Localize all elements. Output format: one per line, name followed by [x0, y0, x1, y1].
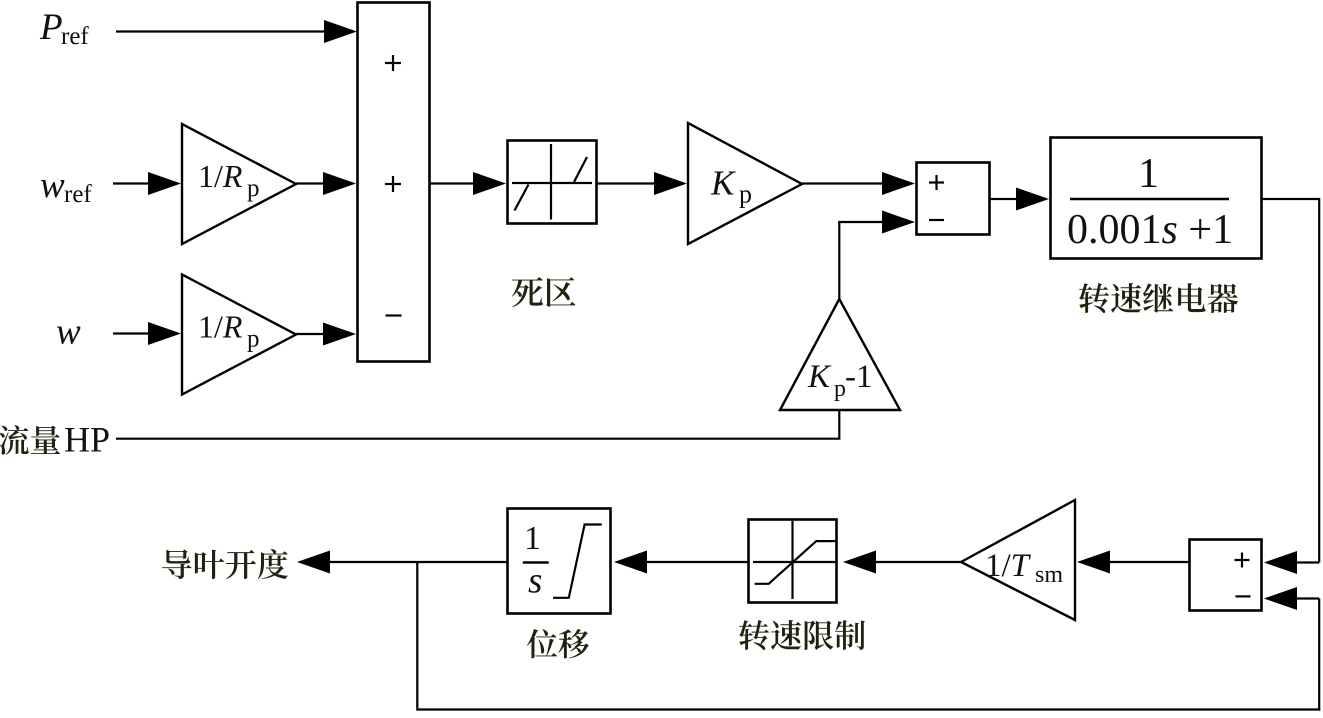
svg-text:1/R: 1/R — [198, 309, 243, 345]
svg-text:P: P — [39, 7, 63, 48]
svg-text:ref: ref — [64, 181, 92, 208]
svg-text:p: p — [247, 326, 260, 353]
svg-text:sm: sm — [1035, 562, 1063, 588]
svg-text:1: 1 — [1138, 151, 1159, 197]
svg-text:s: s — [528, 561, 542, 602]
svg-text:0.001s +1: 0.001s +1 — [1067, 207, 1233, 253]
svg-text:-1: -1 — [845, 359, 873, 395]
svg-text:w: w — [40, 165, 65, 206]
svg-text:ref: ref — [61, 23, 89, 50]
svg-text:1: 1 — [524, 520, 541, 557]
svg-text:p: p — [247, 175, 260, 202]
svg-text:p: p — [739, 180, 752, 209]
svg-text:1/R: 1/R — [198, 158, 243, 194]
svg-text:1/T: 1/T — [985, 548, 1032, 584]
svg-text:K: K — [807, 359, 832, 395]
svg-text:w: w — [56, 312, 81, 353]
svg-text:HP: HP — [64, 420, 110, 460]
svg-text:K: K — [710, 163, 736, 202]
